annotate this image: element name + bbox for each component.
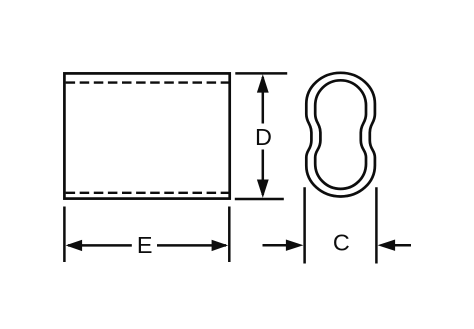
sleeve body rectangle (side view) (64, 73, 229, 198)
ferrule cross-section inner contour (bore) (315, 80, 366, 189)
dimension line E right segment (157, 244, 226, 247)
arrowhead C right (points left) (378, 240, 396, 251)
svg-text:D: D (255, 124, 272, 150)
ferrule cross-section outer contour (306, 73, 375, 197)
extension line bottom (for D) (235, 198, 284, 201)
dimension line E left segment (68, 244, 132, 247)
svg-text:E: E (137, 232, 153, 258)
extension line left (for E) (63, 207, 66, 263)
arrowhead D up (257, 74, 269, 92)
hidden bore line top (dashed) (66, 81, 229, 83)
extension line top (for D) (235, 72, 287, 75)
dimension line D lower segment (262, 150, 265, 196)
extension line left (for C) (303, 187, 306, 263)
arrowhead E left (66, 240, 83, 251)
leader line C right (394, 244, 411, 247)
extension line right (for C) (375, 187, 378, 263)
arrowhead E right (212, 240, 229, 251)
svg-text:C: C (333, 229, 350, 255)
arrowhead D down (257, 180, 269, 198)
leader line C left (263, 244, 289, 247)
dimension line D upper segment (262, 77, 265, 124)
extension line right (for E) (228, 207, 231, 263)
hidden bore line bottom (dashed) (66, 192, 229, 194)
arrowhead C left (points right) (286, 240, 304, 251)
